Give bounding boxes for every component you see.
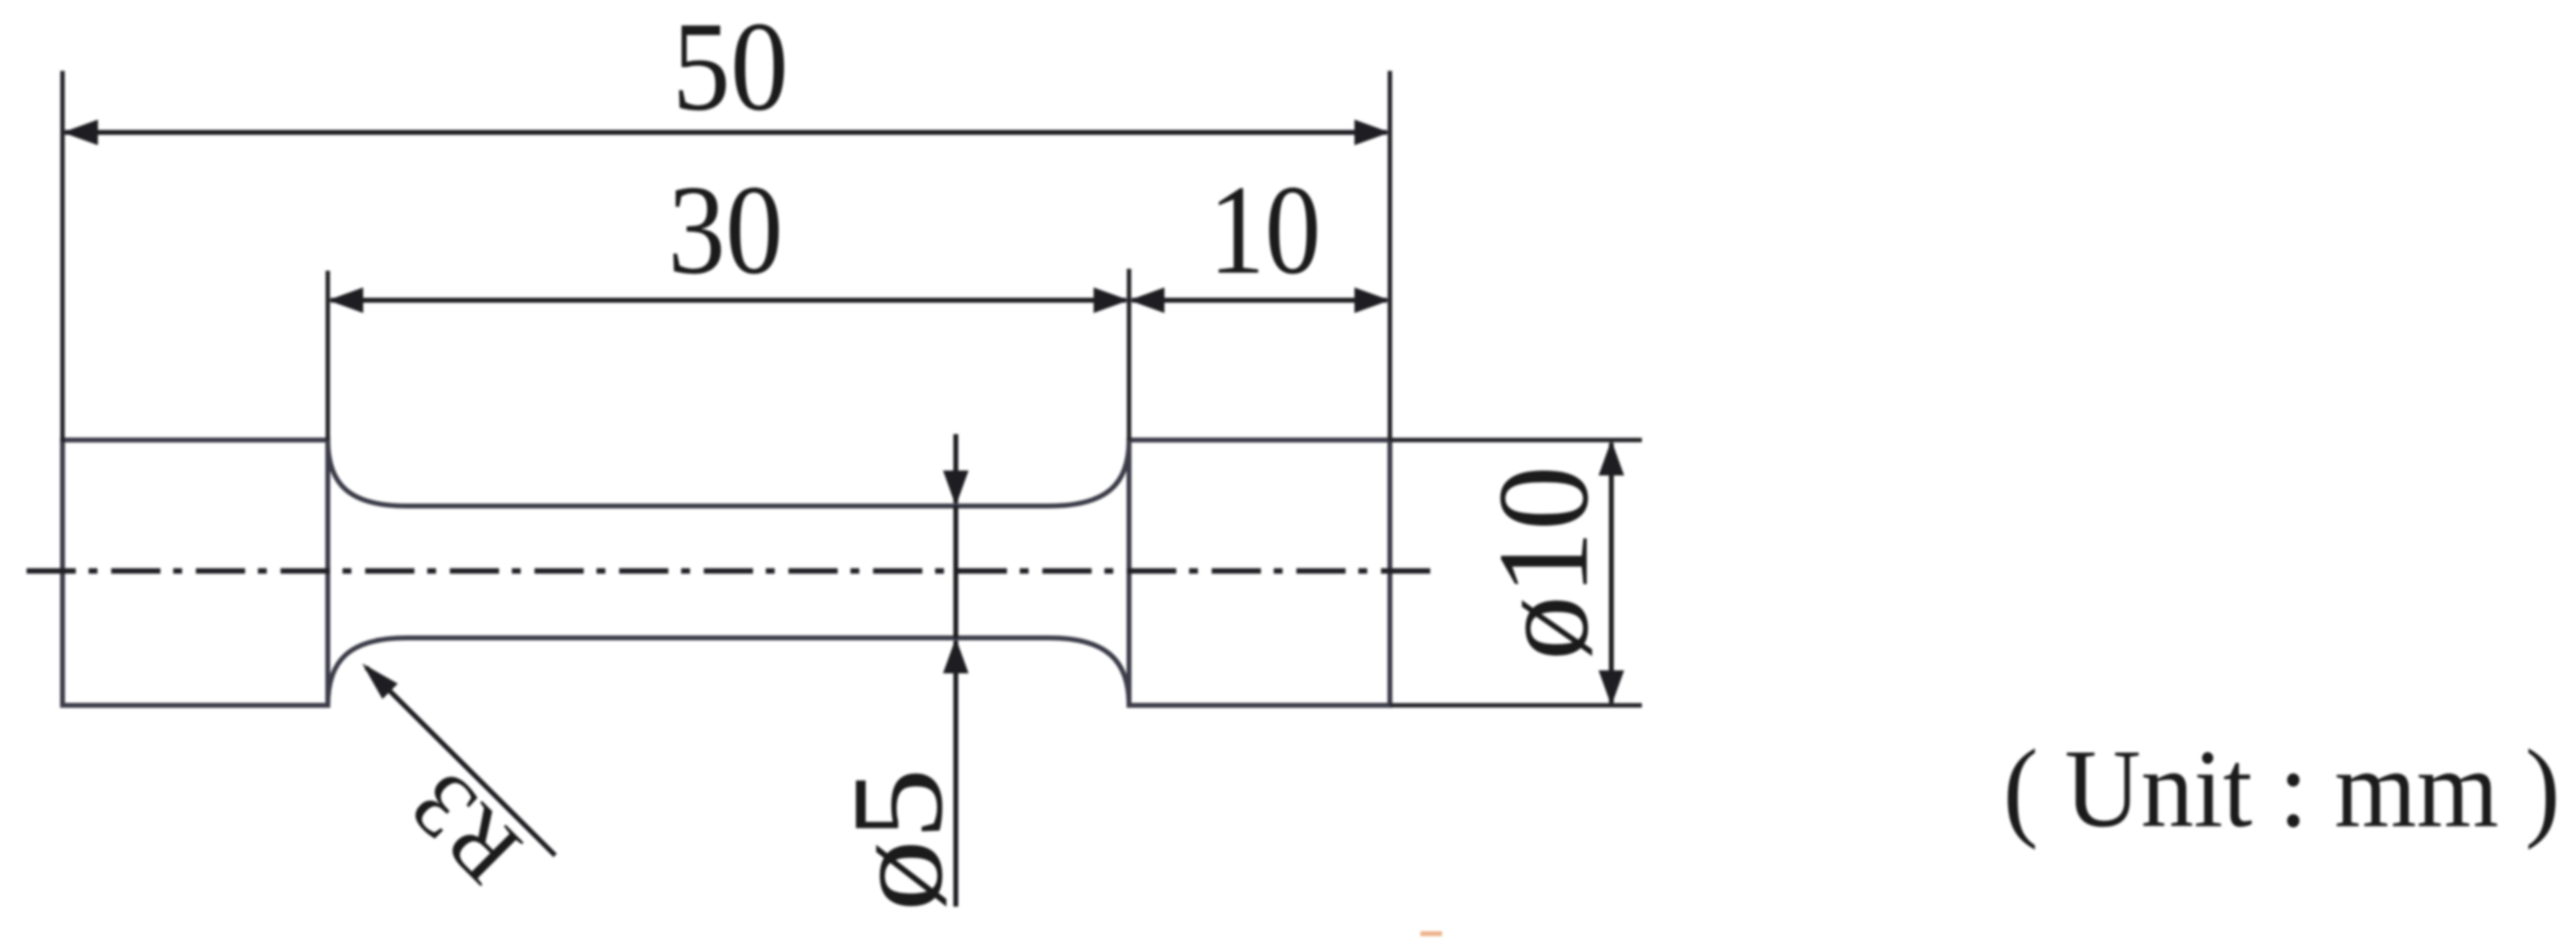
dimension line 30 [331,298,1126,303]
svg-text:ø5: ø5 [825,768,970,912]
svg-text:ø10: ø10 [1471,466,1615,661]
arrowhead 50 right [1354,120,1390,146]
specimen outline: gauge bottom edge with fillets R3 [328,638,1129,706]
dimension line diameter 5 lower segment [954,641,959,907]
extension line left (x=63.5) [60,71,65,442]
arrowhead diameter5 upper (points down) [943,471,969,506]
dimension line diameter 5 upper segment [954,434,959,503]
arrowhead 50 left [63,120,98,146]
arrowhead 30 right [1094,287,1129,313]
specimen outline: left grip block [63,440,329,706]
arrowhead diameter10 top [1599,440,1624,475]
artifact speck [1420,931,1442,936]
arrowhead R3 leader (points up-left) [362,663,398,699]
extension line left shoulder (x=333) [326,271,331,440]
arrowhead 10 right [1354,287,1390,313]
dimension line 10 [1132,298,1387,303]
extension line bottom for diameter 10 (y=716.5) [1390,703,1642,708]
dimension line diameter 10 (vertical) [1609,443,1614,703]
leader line R3 [366,667,555,855]
svg-text:30: 30 [668,159,784,301]
dimension line 50 [65,130,1387,135]
extension line right shoulder (x=1147) [1127,269,1132,440]
svg-text:( Unit : mm ): ( Unit : mm ) [2003,727,2560,851]
extension line top for diameter 10 (y=447) [1390,438,1642,443]
arrowhead diameter10 bottom [1599,670,1624,706]
arrowhead diameter5 lower (points up) [943,638,969,673]
svg-text:R3: R3 [390,753,540,904]
centerline (dash-dot axis) [27,568,1441,574]
svg-text:50: 50 [672,0,788,138]
dimension line diameter 5 middle segment [954,506,959,638]
arrowhead 30 left [328,287,363,313]
specimen outline: right grip block [1129,440,1390,706]
arrowhead 10 left [1129,287,1164,313]
svg-text:10: 10 [1209,159,1321,301]
specimen outline: gauge top edge with fillets R3 [328,440,1129,506]
extension line right (x=1412) [1388,71,1393,440]
